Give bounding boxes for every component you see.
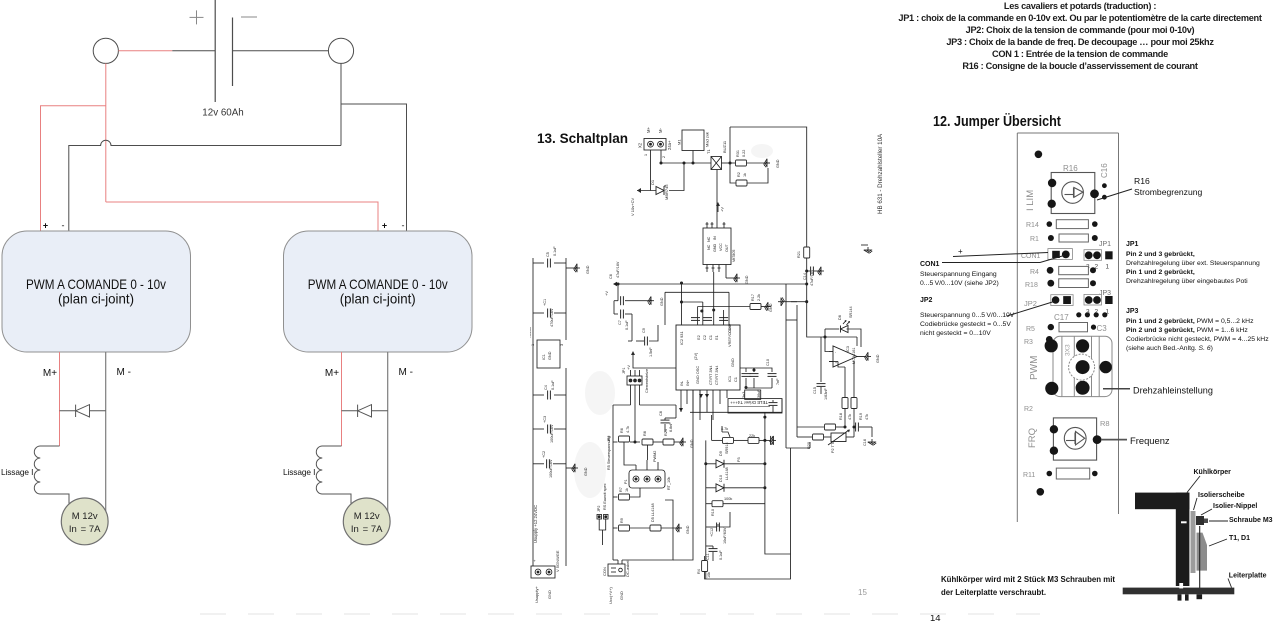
- small caps above IC2: [691, 318, 700, 321]
- trimmer P3 with arm: [723, 437, 734, 443]
- svg-text:M -: M -: [398, 367, 412, 378]
- motor M2 right: [343, 498, 390, 545]
- svg-text:R7: R7: [619, 487, 623, 492]
- svg-text:+: +: [43, 221, 48, 231]
- bottom return wire: [705, 448, 791, 579]
- svg-text:47uF/16V: 47uF/16V: [616, 261, 620, 278]
- svg-text:+C12: +C12: [710, 528, 714, 537]
- svg-text:C14: C14: [803, 273, 807, 280]
- svg-text:12. Jumper Übersicht: 12. Jumper Übersicht: [933, 113, 1061, 130]
- smoothing inductor L2 right: [316, 446, 351, 505]
- gnd of C6: [640, 300, 652, 302]
- smoothing inductor L1 left: [34, 446, 69, 505]
- +V arrow mid: [632, 353, 634, 360]
- freewheel diode D1 left: [60, 405, 106, 417]
- heatsink top bar: [1135, 493, 1189, 510]
- input from shunt: [807, 302, 821, 337]
- R16 pointer: [1097, 189, 1132, 200]
- svg-text:+C3: +C3: [543, 416, 547, 423]
- JP1 jumper block: [1084, 250, 1102, 261]
- svg-text:R19: R19: [859, 413, 863, 420]
- svg-text:CON1: CON1: [1021, 253, 1041, 260]
- svg-text:C4: C4: [544, 385, 548, 390]
- svg-text:R2: R2: [737, 172, 741, 177]
- cap C4: [533, 394, 544, 396]
- svg-text:C6: C6: [609, 274, 613, 279]
- svg-text:Pin 1 und 2 gebrückt, PWM = 0,: Pin 1 und 2 gebrückt, PWM = 0,5...2 kHz: [1126, 318, 1254, 325]
- page number 15: [858, 588, 867, 597]
- svg-text:D10: D10: [719, 475, 723, 482]
- svg-text:V 5GNWGE: V 5GNWGE: [555, 550, 560, 572]
- svg-text:C17: C17: [1054, 313, 1069, 322]
- svg-text:BUZ11: BUZ11: [722, 140, 727, 153]
- cap C15: [817, 384, 826, 387]
- svg-text:47k: 47k: [848, 414, 852, 420]
- svg-text:R2: R2: [1024, 406, 1033, 413]
- LED D11: [825, 328, 839, 330]
- transistor T1/D1 body: [1197, 533, 1208, 571]
- svg-text:6.8nF: 6.8nF: [669, 422, 673, 432]
- svg-text:12v 60Ah: 12v 60Ah: [202, 108, 243, 119]
- cap C2: [533, 463, 544, 465]
- svg-text:1k: 1k: [743, 173, 747, 177]
- wire battery to right terminal: [233, 50, 329, 52]
- svg-text:Steuerspannung 0...5 V/0...10V: Steuerspannung 0...5 V/0...10V: [920, 312, 1015, 319]
- svg-text:In = 7A: In = 7A: [351, 524, 383, 535]
- op-amp IC3: [829, 346, 866, 367]
- terminal node right: [328, 38, 353, 63]
- svg-text:470uF/16V: 470uF/16V: [550, 308, 554, 327]
- circuit board: [1123, 588, 1235, 595]
- zener branch wire: [637, 190, 656, 192]
- svg-text:C1: C1: [733, 377, 738, 382]
- divider resistor row: [613, 441, 618, 443]
- svg-text:R9: R9: [620, 518, 624, 523]
- svg-text:IC1: IC1: [542, 354, 546, 360]
- svg-text:DC-askel: DC-askel: [625, 560, 630, 577]
- svg-text:HB 631 - Drehzahlsteller 10A: HB 631 - Drehzahlsteller 10A: [877, 133, 884, 214]
- svg-text:Codiebrücke gesteckt = 0...5V: Codiebrücke gesteckt = 0...5V: [920, 321, 1011, 328]
- svg-text:R6: R6: [620, 428, 624, 433]
- svg-text:CON1: CON1: [920, 261, 940, 268]
- svg-text:RS Eawcit spec: RS Eawcit spec: [603, 483, 607, 510]
- cap C10: [771, 370, 773, 372]
- cap C8: [664, 418, 666, 420]
- cap C16: [856, 423, 859, 432]
- svg-text:OUT: OUT: [725, 243, 729, 252]
- svg-text:Drehzahleinstellung: Drehzahleinstellung: [1133, 386, 1213, 396]
- trimmer R8: [1053, 418, 1096, 460]
- svg-text:R17: R17: [751, 294, 755, 301]
- red M+ wire left: [59, 352, 61, 446]
- svg-text:Pin 2 und 3 gebrückt, PWM = 1.: Pin 2 und 3 gebrückt, PWM = 1...6 kHz: [1126, 327, 1248, 334]
- svg-text:IC3: IC3: [846, 346, 850, 352]
- svg-text:CON: CON: [602, 567, 607, 576]
- red branch to left PWM plus: [41, 106, 106, 231]
- cap C7: [614, 313, 618, 315]
- svg-text:Mad zxk: Mad zxk: [705, 132, 710, 147]
- lower gate resistor R32: [730, 163, 736, 183]
- svg-text:C1: C1: [708, 335, 713, 340]
- svg-text:R8: R8: [643, 431, 647, 436]
- svg-text:JP1: JP1: [1126, 241, 1139, 248]
- svg-text:Lissage I: Lissage I: [283, 467, 315, 477]
- bottom pad: [1037, 488, 1045, 496]
- wire T1 to regulator: [716, 170, 718, 229]
- svg-text:NC: NC: [707, 244, 711, 250]
- svg-text:M+: M+: [646, 127, 651, 133]
- svg-text:Kühlkörper wird mit 2 Stück M3: Kühlkörper wird mit 2 Stück M3 Schrauben…: [941, 574, 1115, 584]
- svg-text:C9: C9: [642, 328, 646, 333]
- svg-text:R4: R4: [1030, 269, 1039, 276]
- svg-text:+C1: +C1: [543, 299, 547, 306]
- cap C13: [709, 549, 718, 552]
- svg-text:100uF/16V: 100uF/16V: [550, 424, 554, 443]
- svg-text:IN: IN: [713, 236, 717, 240]
- svg-text:0.22: 0.22: [742, 150, 746, 157]
- regulator IC1 box: [537, 340, 560, 368]
- motor M1 left: [61, 498, 108, 545]
- svg-text:In = 7A: In = 7A: [69, 524, 101, 535]
- svg-text:100uF/16V: 100uF/16V: [549, 459, 553, 478]
- svg-text:0.1uF: 0.1uF: [551, 380, 555, 390]
- svg-text:M+: M+: [325, 368, 339, 379]
- svg-text:C7: C7: [618, 320, 622, 325]
- svg-text:C16: C16: [1100, 163, 1109, 178]
- plus sign of battery: [190, 10, 204, 24]
- resistor R21 on right drop: [804, 247, 810, 258]
- svg-text:4.7k: 4.7k: [626, 426, 630, 433]
- regulator bottom pins: [706, 265, 727, 279]
- PCB outline: [1017, 133, 1118, 522]
- svg-text:1.5nF: 1.5nF: [649, 347, 653, 357]
- black M- wire left: [105, 352, 107, 511]
- svg-text:M1: M1: [677, 139, 682, 145]
- svg-text:+: +: [382, 221, 387, 231]
- IC2 top wiring frame: [665, 291, 729, 293]
- left rails: [785, 284, 787, 448]
- svg-text:MBR745: MBR745: [664, 184, 669, 200]
- svg-text:GND: GND: [586, 265, 590, 274]
- long verticals from IC2: [673, 390, 693, 560]
- svg-text:GND: GND: [660, 297, 664, 306]
- pin number ticks: [644, 154, 666, 158]
- voltage regulator IC4: [703, 228, 731, 265]
- svg-text:Isolier-Nippel: Isolier-Nippel: [1213, 503, 1257, 510]
- svg-text:C8: C8: [659, 411, 663, 416]
- svg-text:10k: 10k: [707, 572, 711, 578]
- svg-text:Leiterplatte: Leiterplatte: [1229, 573, 1267, 580]
- electrolytic caps right of IC2: [745, 368, 747, 372]
- pointer lines CON1: [953, 253, 1048, 257]
- svg-text:Isolierscheibe: Isolierscheibe: [1198, 492, 1245, 499]
- regulator gnd: [726, 277, 738, 279]
- svg-text:7nF: 7nF: [776, 378, 780, 385]
- svg-text:-: -: [402, 221, 405, 231]
- svg-text:(siehe auch Bed.-Anltg. S. 6): (siehe auch Bed.-Anltg. S. 6): [1126, 345, 1213, 352]
- resistor R31: [736, 160, 747, 166]
- svg-text:C5: C5: [546, 252, 550, 257]
- Frequenz pointer: [1101, 439, 1127, 441]
- minus sign of battery: [241, 16, 257, 18]
- black M- wire right: [387, 352, 389, 511]
- zener diode D2: [656, 186, 666, 195]
- svg-text:Kühlkörper: Kühlkörper: [1194, 469, 1232, 476]
- electrolytic cap C1: [533, 312, 544, 314]
- svg-text:1: 1: [644, 154, 648, 156]
- svg-text:nicht gesteckt = 0...10V: nicht gesteckt = 0...10V: [920, 330, 991, 337]
- svg-text:M-: M-: [658, 128, 663, 133]
- gnd mid right: [864, 247, 872, 253]
- svg-text:R1: R1: [1030, 236, 1039, 243]
- svg-text:JP2: JP2: [920, 297, 933, 304]
- IC2 right pin R17: [698, 306, 750, 308]
- svg-text:C2: C2: [702, 335, 707, 340]
- svg-text:SR914: SR914: [725, 442, 729, 454]
- svg-text:CT/RT 3N4: CT/RT 3N4: [714, 365, 719, 385]
- left rail B: [565, 258, 567, 340]
- svg-text:GND: GND: [584, 467, 588, 476]
- red M+ wire right: [341, 352, 343, 446]
- bus after T1: [722, 162, 737, 164]
- svg-text:PWM2: PWM2: [653, 451, 657, 462]
- svg-text:R5 Steuerspannung: R5 Steuerspannung: [607, 436, 611, 470]
- svg-text:Strombegrenzung: Strombegrenzung: [1134, 187, 1203, 197]
- cap to gnd end of row: [771, 436, 774, 445]
- svg-text:22k: 22k: [749, 434, 755, 438]
- svg-text:C15: C15: [813, 387, 817, 394]
- svg-text:3: 3: [560, 344, 564, 346]
- svg-text:+V: +V: [604, 291, 609, 296]
- JP1 wires: [630, 385, 632, 405]
- screw M3: [1196, 516, 1204, 525]
- svg-text:T1, D1: T1, D1: [1229, 535, 1250, 542]
- svg-text:GND: GND: [619, 591, 624, 600]
- wire R31 to ground: [747, 162, 771, 164]
- mounting note: [941, 574, 1115, 597]
- gnd stub left: [566, 267, 578, 269]
- svg-text:Pin 2 und 3 gebrückt,: Pin 2 und 3 gebrückt,: [1126, 251, 1195, 258]
- cap C9: [631, 314, 633, 341]
- svg-text:GND: GND: [730, 358, 735, 367]
- svg-text:-: -: [62, 221, 65, 231]
- regulator top pins: [706, 222, 726, 228]
- svg-text:IC2 931: IC2 931: [679, 331, 684, 345]
- rails: [765, 417, 791, 554]
- Drehzahleinstellung pointer: [1103, 388, 1130, 390]
- svg-text:Drehzahlregelung über ext. Ste: Drehzahlregelung über ext. Steuerspannun…: [1126, 260, 1260, 267]
- bus wire top: [661, 162, 711, 164]
- svg-text:GND: GND: [876, 354, 880, 363]
- svg-text:D5 LL4148: D5 LL4148: [651, 503, 655, 522]
- svg-text:+V: +V: [626, 365, 631, 370]
- jumper JP2 two-pin: [597, 515, 608, 520]
- svg-text:P3: P3: [737, 457, 741, 462]
- svg-text:LL4148: LL4148: [725, 467, 729, 480]
- lower row resistor: [797, 426, 824, 428]
- svg-text:VCC: VCC: [719, 243, 723, 251]
- svg-text:+C2: +C2: [542, 451, 546, 458]
- wire X2 pin2 down to bus: [660, 150, 662, 163]
- svg-text:GND: GND: [769, 303, 773, 312]
- svg-text:47k: 47k: [865, 414, 869, 420]
- svg-text:24a+: 24a+: [667, 140, 672, 150]
- resistor 22k: [748, 437, 759, 443]
- supply label: [533, 505, 538, 543]
- svg-text:der Leiterplatte verschraubt.: der Leiterplatte verschraubt.: [941, 587, 1046, 597]
- resistor R4v: [702, 561, 708, 572]
- faint scan noise band at bottom: [200, 613, 1040, 615]
- svg-text:Usupply+: Usupply+: [534, 586, 539, 603]
- svg-text:R10: R10: [711, 509, 715, 516]
- svg-text:0.1uF: 0.1uF: [719, 550, 723, 560]
- svg-text:1: 1: [1106, 264, 1110, 271]
- black wire to left PWM minus with hop: [69, 140, 341, 231]
- svg-text:JP3: JP3: [1126, 308, 1139, 315]
- svg-text:R21: R21: [797, 251, 801, 258]
- pin arrows under IC2: [699, 394, 703, 398]
- freewheel diode D2 right: [342, 405, 388, 417]
- cap C3: [533, 428, 544, 430]
- svg-text:C16: C16: [863, 439, 867, 446]
- svg-text:R16: R16: [1063, 164, 1078, 173]
- svg-text:R3: R3: [1024, 339, 1033, 346]
- svg-text:D8: D8: [838, 315, 842, 320]
- svg-text:Usupply +12 24VDC: Usupply +12 24VDC: [533, 505, 538, 543]
- svg-text:V 10v+CV: V 10v+CV: [630, 198, 635, 216]
- header JP1: [627, 376, 642, 385]
- connector CON3: [608, 564, 625, 576]
- svg-text:R16: R16: [1134, 176, 1150, 186]
- svg-text:4.7k: 4.7k: [721, 427, 728, 431]
- svg-text:Drehzahlregelung über eingebau: Drehzahlregelung über eingebautes Poti: [1126, 278, 1248, 285]
- svg-text:R31: R31: [736, 150, 740, 157]
- svg-text:(2V): (2V): [693, 352, 698, 360]
- svg-text:GND: GND: [713, 243, 717, 252]
- svg-text:X2: X2: [638, 142, 643, 148]
- svg-text:10uF/63V: 10uF/63V: [723, 527, 727, 544]
- terminal node left: [93, 38, 118, 63]
- resistor R9 row: [613, 527, 618, 529]
- svg-text:15: 15: [858, 588, 867, 597]
- IC2 bottom pin wires: [680, 390, 682, 412]
- svg-text:JP2: JP2: [597, 505, 601, 512]
- connector X1: [531, 566, 555, 578]
- svg-text:M 12v: M 12v: [72, 511, 98, 522]
- svg-text:(plan ci-joint): (plan ci-joint): [340, 292, 416, 307]
- svg-text:C3: C3: [1097, 324, 1108, 333]
- svg-text:R8: R8: [1100, 419, 1110, 428]
- MOSFET T1: [711, 157, 722, 170]
- svg-text:E2: E2: [696, 335, 701, 340]
- top right supply wire: [730, 127, 807, 247]
- left PWM block U1: [2, 231, 191, 352]
- svg-text:Codierbrücke nicht gesteckt, P: Codierbrücke nicht gesteckt, PWM = 4...2…: [1126, 336, 1269, 343]
- ground top right: [764, 159, 770, 167]
- svg-text:Schraube M3: Schraube M3: [1229, 517, 1273, 524]
- svg-text:1: 1: [531, 344, 535, 346]
- insulator plate: [1191, 511, 1196, 573]
- gnd left column low: [566, 467, 576, 469]
- svg-text:M 12v: M 12v: [354, 511, 380, 522]
- svg-text:Pin 1 und 2 gebrückt,: Pin 1 und 2 gebrückt,: [1126, 269, 1195, 276]
- svg-text:R18: R18: [1025, 282, 1038, 289]
- svg-text:78L05: 78L05: [530, 326, 532, 338]
- svg-text:T1: T1: [706, 149, 711, 154]
- svg-text:(plan ci-joint): (plan ci-joint): [58, 292, 134, 307]
- svg-text:JP1: JP1: [1099, 241, 1111, 248]
- battery B1 positive plate: [214, 0, 216, 102]
- wire M1 to bus: [692, 151, 694, 164]
- svg-text:GND: GND: [686, 525, 690, 534]
- svg-text:CDI9: CDI9: [727, 324, 732, 333]
- svg-text:R5: R5: [1026, 326, 1035, 333]
- svg-text:SR144: SR144: [849, 306, 853, 318]
- board pins: [1178, 594, 1182, 600]
- resistors R18 R19 vertical: [844, 367, 846, 397]
- svg-text:I LIM: I LIM: [1025, 190, 1036, 211]
- diode D9 row: [706, 463, 716, 465]
- wire X2 pin1 down: [650, 150, 652, 191]
- svg-text:D1: D1: [650, 179, 655, 185]
- op-amp gnd: [865, 352, 871, 360]
- svg-text:E1: E1: [714, 335, 719, 340]
- cap C5: [533, 262, 544, 264]
- svg-text:Clementstelze: Clementstelze: [645, 369, 649, 393]
- red wire down from left terminal: [105, 63, 107, 202]
- svg-text:3n3: 3n3: [742, 392, 746, 398]
- svg-text:R11: R11: [1023, 472, 1035, 479]
- arrow to V supply: [637, 188, 641, 193]
- svg-text:D9: D9: [719, 451, 723, 456]
- svg-text:2.2k: 2.2k: [757, 294, 761, 301]
- wire left terminal to battery (gray part): [172, 50, 215, 52]
- svg-text:P2 TTL: P2 TTL: [831, 441, 835, 453]
- main horizontal bus: [614, 283, 807, 285]
- trimmer R16: [1051, 173, 1095, 214]
- JP3 jumper block: [1084, 294, 1102, 305]
- svg-text:47uF/16V: 47uF/16V: [810, 269, 814, 286]
- pads right of R16: [1102, 183, 1107, 188]
- black wire down from right terminal: [340, 63, 342, 145]
- svg-text:TELE Driver T4+++: TELE Driver T4+++: [730, 400, 768, 405]
- svg-text:R24: R24: [664, 429, 668, 436]
- svg-text:Frequenz: Frequenz: [1130, 435, 1170, 446]
- svg-text:M -: M -: [116, 367, 130, 378]
- +V arrow over regulator: [717, 204, 719, 212]
- cap C12: [717, 524, 719, 527]
- svg-text:+: +: [958, 247, 963, 256]
- scan noise blobs: [574, 144, 773, 498]
- svg-text:0.1uF: 0.1uF: [625, 320, 629, 330]
- svg-text:R14: R14: [1026, 222, 1039, 229]
- svg-text:Ucc(+V+): Ucc(+V+): [608, 586, 613, 604]
- trimmer P2: [806, 436, 812, 438]
- svg-text:FRQ: FRQ: [1027, 428, 1038, 448]
- svg-text:Vit7805: Vit7805: [732, 250, 736, 262]
- right PWM block U2: [284, 231, 473, 352]
- svg-text:1/63nF: 1/63nF: [824, 387, 828, 400]
- svg-text:IN+: IN+: [685, 379, 690, 386]
- svg-text:GND: GND: [776, 159, 780, 168]
- svg-text:JP1: JP1: [622, 367, 626, 374]
- relay box M1: [682, 130, 704, 151]
- svg-text:NC: NC: [707, 236, 711, 242]
- svg-text:1k: 1k: [625, 488, 629, 492]
- svg-text:13. Schaltplan: 13. Schaltplan: [537, 130, 628, 146]
- resistor R7: [613, 496, 618, 498]
- heatsink stem: [1176, 493, 1190, 586]
